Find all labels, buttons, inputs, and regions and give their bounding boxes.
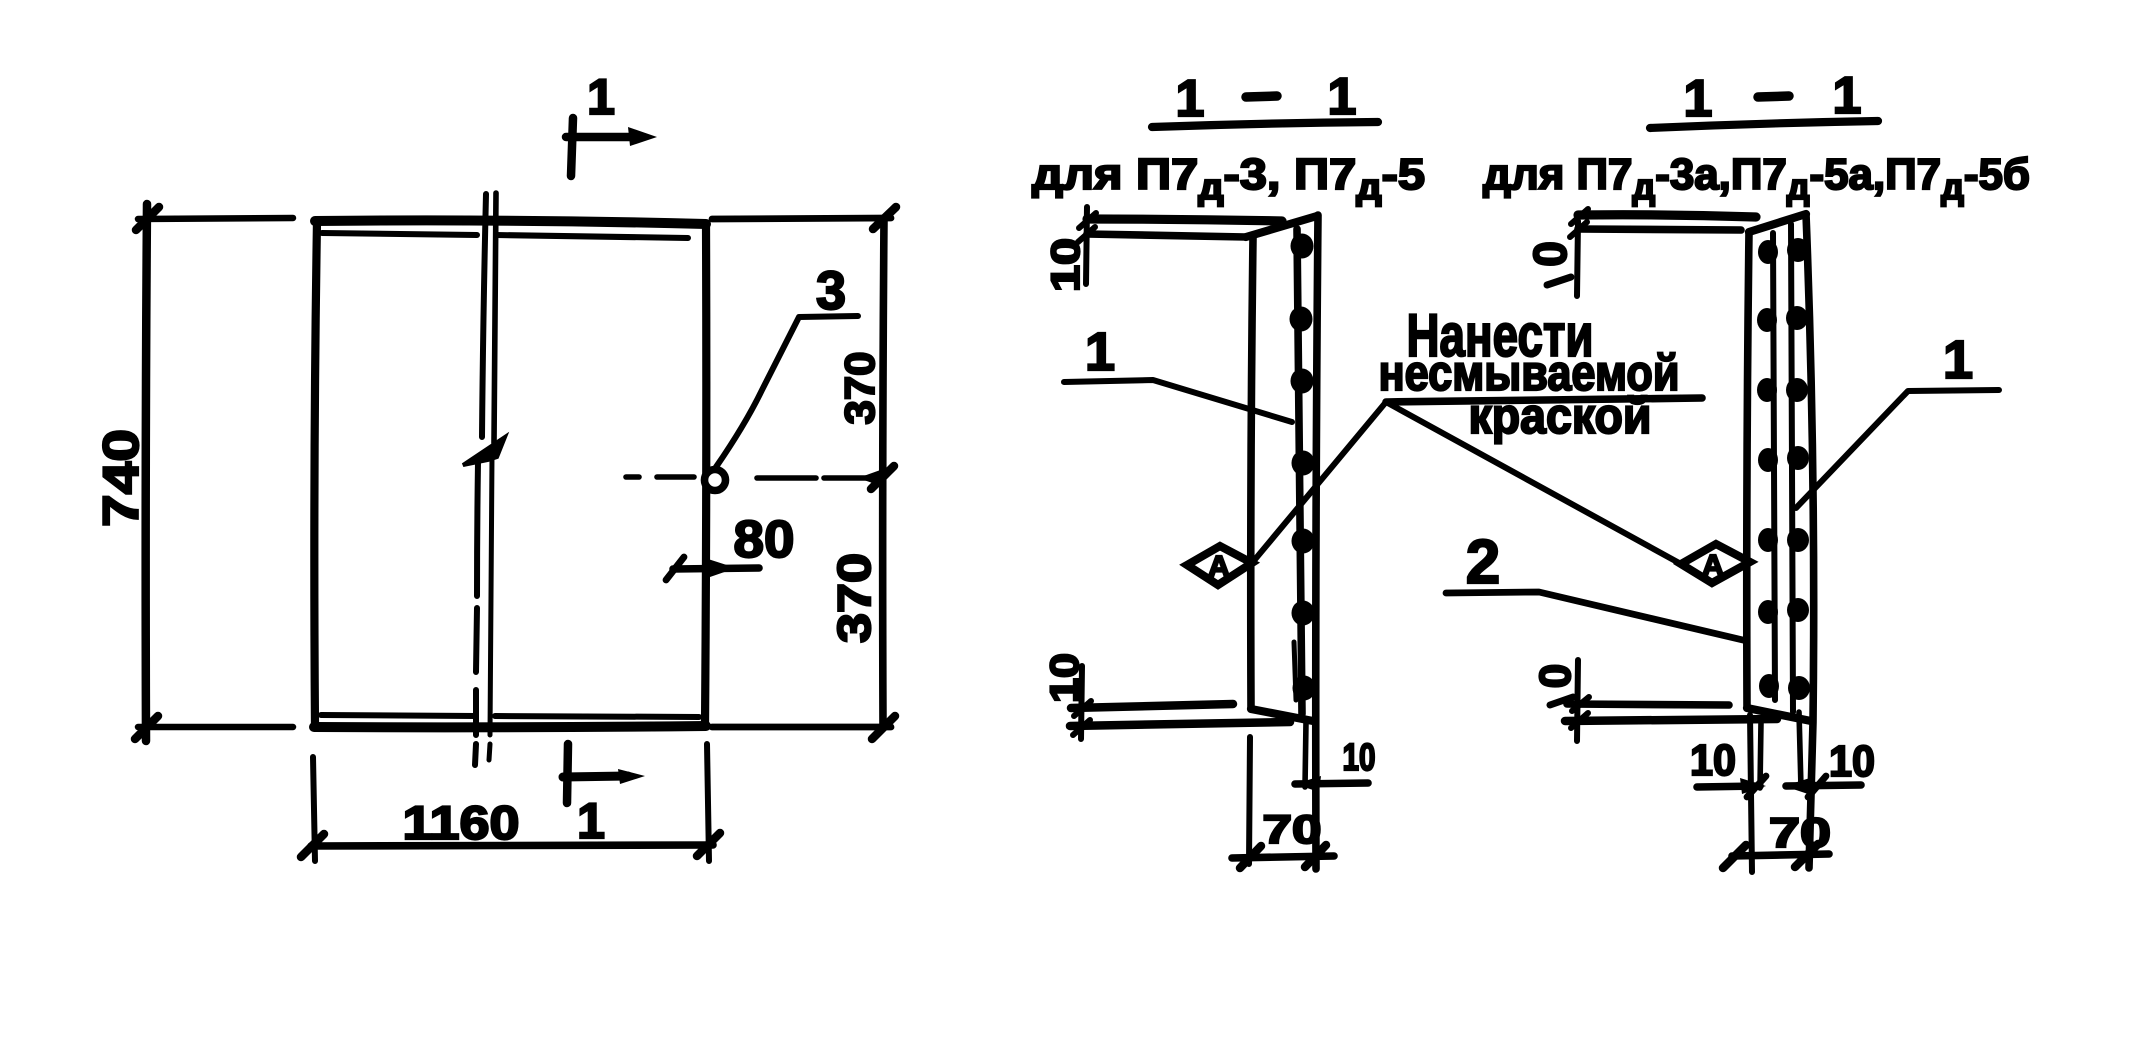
svg-text:1: 1 [577,793,605,849]
rib outer edge / right extension [1316,215,1318,869]
svg-text:1: 1 [1833,67,1862,125]
rebar dots left column [1757,240,1779,698]
dimension 740 : top extension + tick [138,218,293,219]
section mark 1 (top) [571,118,573,176]
rib top slant [1749,214,1806,232]
weld diamond A (right) [1681,544,1750,583]
dim 0 (bottom left) extension + ticks [1577,660,1578,741]
dim 10 (top left) extension + ticks [1086,207,1087,284]
dashed centre line through hole [626,477,878,478]
dim 10 (bottom right) : tongue line, dim line, arrow [1305,722,1306,787]
rib outer right edge + extension [1806,214,1814,868]
svg-text:1: 1 [587,69,615,125]
note underline [1386,398,1702,402]
bottom slab edge (lower line) [1070,722,1290,726]
dimension 740 : bottom extension + tick [138,724,293,731]
panel outline right edge [705,224,706,726]
svg-text:3: 3 [816,261,846,321]
right wall line at tongue [1799,712,1801,788]
top slab edge (lower line) [1578,229,1741,230]
dim 0 (top left) extension + ticks [1577,221,1578,296]
weld diamond A (middle) [1187,546,1252,585]
rebar dots (7) [1290,234,1316,701]
svg-text:А: А [1208,549,1230,584]
panel outline bottom edge (double line) [314,726,706,727]
svg-text:1: 1 [1176,70,1205,128]
rib left edge [1251,238,1253,709]
vertical break line lower part [475,462,478,765]
top slab edge (upper line) [1578,215,1756,217]
dimension 1160 : dim line [311,845,713,846]
svg-text:370: 370 [836,352,883,425]
svg-text:70: 70 [1263,808,1322,852]
svg-text:А: А [1702,548,1724,583]
top slab edge (upper line) [1087,219,1282,221]
rebar dots right column [1786,238,1810,700]
dimension 1160 : slash ticks [301,834,324,857]
svg-text:0: 0 [1531,664,1580,688]
svg-text:370: 370 [828,553,880,643]
dimension 740 : dim line [146,204,147,741]
svg-text:2: 2 [1466,528,1500,597]
right dim slash ticks [873,207,896,229]
svg-text:10: 10 [1043,653,1087,703]
hole (circle) on panel edge [705,470,726,491]
rebar line (right) [1791,224,1793,712]
svg-text:1: 1 [1328,68,1357,126]
bottom slab edge (lower line) [1565,719,1777,721]
bottom slab edge (upper line) [1071,704,1233,708]
svg-text:70: 70 [1769,809,1831,856]
leader note to right diamond [1386,402,1681,564]
svg-text:740: 740 [93,429,149,527]
svg-text:10: 10 [1690,736,1736,785]
svg-text:1160: 1160 [403,796,520,849]
svg-text:1: 1 [1943,330,1973,390]
panel outline top edge (double line) [315,220,706,224]
rib top slant [1246,216,1317,237]
dim 10 (bottom, right of tongue) [1786,785,1861,786]
top slab edge (lower line) [1087,234,1246,237]
dim 70 : extension, line, ticks, label [1249,737,1250,864]
dim 70 : line, ticks, label [1732,854,1829,856]
bottom-left corner extension down [1750,715,1752,872]
leader diamond to note [1252,402,1386,563]
rib bottom slant [1251,709,1313,721]
svg-text:краской: краской [1469,388,1652,444]
dimension 80 : line + arrow + tick [673,568,759,569]
break line kink arrow [463,437,505,465]
rib bottom slant [1747,708,1811,721]
bottom slab edge (upper line) [1567,704,1729,705]
dim 10 (bottom, left of tongue) [1697,786,1760,787]
svg-text:0: 0 [1524,241,1576,267]
svg-text:10: 10 [1829,737,1875,786]
leader to label 3 [716,316,858,467]
rebar line (left) [1773,233,1775,700]
right dimension line 370/370 [883,218,884,728]
panel outline left edge [314,221,317,727]
dimension 1160 : extension lines [313,757,315,861]
right dim extensions [712,218,891,219]
svg-text:80: 80 [734,511,795,569]
svg-text:1: 1 [1684,70,1713,128]
dim 10 (bottom left) extension + ticks [1081,666,1082,739]
svg-text:10: 10 [1343,737,1376,779]
rib inner line [1297,229,1302,714]
section mark 1 (bottom) [567,744,568,803]
vertical break line (double) upper part [482,194,486,437]
rib left edge [1747,232,1749,708]
svg-text:10: 10 [1044,238,1088,292]
svg-text:1: 1 [1085,322,1115,382]
left wall line at tongue [1760,722,1761,788]
